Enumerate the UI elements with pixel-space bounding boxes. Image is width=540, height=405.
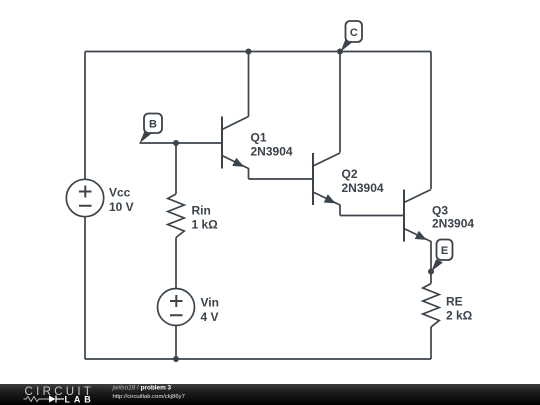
voltage source Vcc: [66, 179, 133, 216]
node C flag: [341, 21, 362, 52]
CircuitLab logo: [24, 386, 95, 404]
junction dot node C at top rail: [337, 49, 343, 55]
svg-text:Vin: Vin: [201, 296, 219, 310]
svg-text:Rin: Rin: [192, 204, 211, 218]
svg-text:LAB: LAB: [65, 394, 95, 404]
svg-text:http://circuitlab.com/ckj86y7: http://circuitlab.com/ckj86y7: [113, 394, 185, 400]
wire left rail lower: [84, 217, 86, 359]
wire Q1 collector to top rail: [248, 52, 250, 117]
svg-text:C: C: [350, 27, 358, 39]
svg-text:Q3: Q3: [432, 204, 448, 218]
svg-text:jwilso18 / problem 3: jwilso18 / problem 3: [112, 384, 172, 391]
svg-text:RE: RE: [446, 295, 463, 309]
svg-text:2 kΩ: 2 kΩ: [446, 309, 473, 323]
junction dot node B / Rin: [173, 140, 179, 146]
svg-text:B: B: [149, 119, 157, 131]
transistor Q1: [222, 117, 293, 180]
svg-text:Q2: Q2: [342, 167, 358, 181]
svg-text:E: E: [441, 245, 448, 257]
transistor Q3: [404, 190, 474, 253]
svg-text:2N3904: 2N3904: [251, 145, 293, 159]
svg-text:4 V: 4 V: [201, 310, 219, 324]
wire Vin to bottom rail: [175, 326, 177, 360]
node B flag: [140, 114, 163, 144]
wire top rail: [85, 51, 431, 53]
svg-text:Vcc: Vcc: [109, 186, 131, 200]
resistor Rin: [168, 194, 218, 238]
wire RE lower lead: [430, 327, 432, 359]
transistor Q2: [313, 153, 384, 216]
wire bottom rail: [85, 358, 431, 360]
footer bar with CircuitLab logo and links: [0, 384, 540, 405]
wire Q2 emitter to Q3 base: [340, 215, 404, 217]
wire Q1 emitter to Q2 base: [249, 178, 314, 180]
svg-text:Q1: Q1: [251, 131, 267, 145]
svg-text:1 kΩ: 1 kΩ: [192, 218, 219, 232]
svg-text:10 V: 10 V: [109, 200, 134, 214]
wire Rin upper lead: [175, 143, 177, 194]
junction dot node E: [428, 269, 434, 275]
voltage source Vin: [158, 289, 219, 326]
node E flag: [431, 240, 452, 272]
resistor RE: [423, 284, 473, 328]
junction dot Q1 collector at top rail: [246, 49, 252, 55]
wire Q3 emitter to RE: [430, 252, 432, 284]
wire Q2 collector to top rail: [339, 52, 341, 153]
wire Q3 collector to top rail: [430, 52, 432, 190]
svg-text:2N3904: 2N3904: [342, 181, 384, 195]
wire node B stub and Q1 base: [140, 142, 223, 144]
svg-text:2N3904: 2N3904: [432, 217, 474, 231]
junction dot Vin at bottom rail: [173, 356, 179, 362]
wire left rail upper: [84, 52, 86, 180]
wire Rin to Vin: [175, 238, 177, 289]
